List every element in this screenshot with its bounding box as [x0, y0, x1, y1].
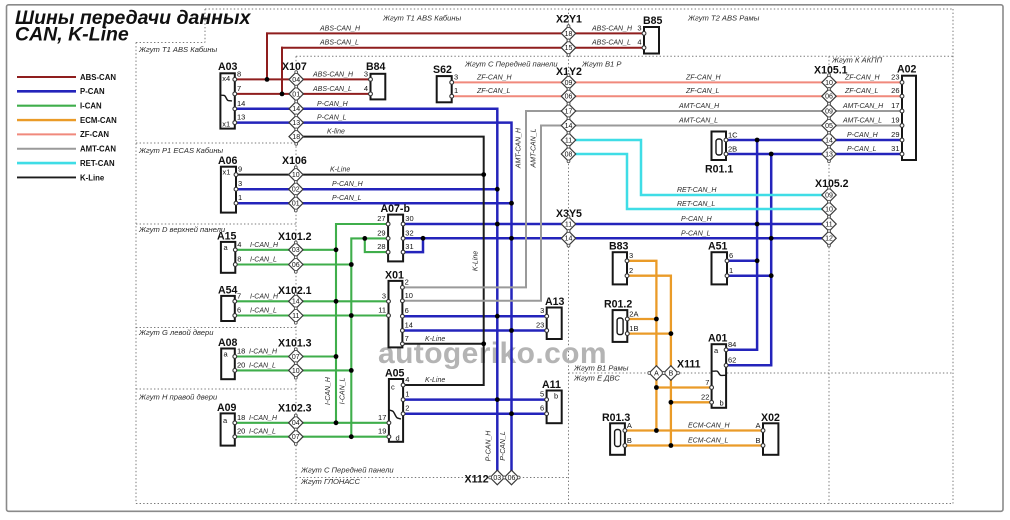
- svg-text:P-CAN_H: P-CAN_H: [847, 132, 879, 139]
- svg-text:P-CAN: P-CAN: [80, 87, 105, 96]
- wire P-CAN_L A06.1 row: [236, 202, 512, 205]
- wire K-Line X107.18 row: [296, 137, 484, 385]
- svg-text:X107: X107: [282, 61, 307, 73]
- junction P-CAN_H X106: [495, 187, 500, 192]
- junction I-CAN_H X101.2 row: [334, 247, 339, 252]
- junction K-Line X01: [481, 341, 486, 346]
- svg-text:AMT-CAN_H: AMT-CAN_H: [516, 127, 523, 169]
- svg-text:x4: x4: [222, 74, 230, 83]
- svg-text:I-CAN: I-CAN: [80, 102, 102, 111]
- svg-text:RET-CAN_H: RET-CAN_H: [677, 187, 717, 194]
- svg-text:3: 3: [629, 251, 633, 260]
- svg-text:S62: S62: [433, 64, 452, 76]
- svg-text:P-CAN_H: P-CAN_H: [332, 181, 364, 188]
- svg-text:05: 05: [825, 123, 833, 130]
- svg-text:84: 84: [728, 340, 736, 349]
- connector R01.2: [613, 310, 628, 342]
- connector B84: [371, 74, 386, 100]
- svg-text:09: 09: [565, 80, 573, 87]
- wire I-CAN_H vertical bus: [336, 224, 388, 423]
- dashed harness boundary top-left vertical: [204, 9, 206, 43]
- svg-text:29: 29: [377, 228, 385, 237]
- svg-text:I-CAN_L: I-CAN_L: [249, 429, 276, 436]
- junction P-CAN_L at A07-b bus: [509, 236, 514, 241]
- svg-text:5: 5: [540, 390, 544, 399]
- dashed boundary right-door top: [136, 388, 296, 390]
- connector A15: [221, 242, 235, 273]
- svg-text:3: 3: [238, 179, 242, 188]
- wire I-CAN_H A54.7 to X01.3: [235, 300, 389, 302]
- svg-text:10: 10: [292, 172, 300, 179]
- svg-text:01: 01: [292, 201, 300, 208]
- svg-text:14: 14: [292, 299, 300, 306]
- svg-text:20: 20: [237, 427, 245, 436]
- svg-text:K-Line: K-Line: [330, 167, 350, 174]
- svg-text:K-Line: K-Line: [425, 377, 445, 384]
- svg-text:autogeriko.com: autogeriko.com: [378, 337, 607, 370]
- svg-text:18: 18: [565, 31, 573, 38]
- svg-text:09: 09: [825, 108, 833, 115]
- wire P-CAN_L A05.2 to A11.6: [403, 412, 546, 415]
- junction I-CAN_L A07-b.29: [362, 236, 367, 241]
- svg-text:06: 06: [292, 262, 300, 269]
- svg-text:14: 14: [405, 321, 413, 330]
- wire P-CAN_L A51.1 stub: [727, 274, 771, 277]
- junction I-CAN_H X102.1 row: [334, 299, 339, 304]
- svg-text:Жгут Е ДВС: Жгут Е ДВС: [573, 374, 620, 383]
- svg-text:ECM-CAN_H: ECM-CAN_H: [688, 423, 731, 430]
- svg-text:X105.2: X105.2: [815, 178, 849, 190]
- svg-text:A05: A05: [385, 368, 405, 380]
- svg-text:X02: X02: [761, 412, 780, 424]
- svg-text:P-CAN_L: P-CAN_L: [681, 230, 711, 237]
- junction I-CAN_H X102.3 row: [334, 420, 339, 425]
- svg-text:23: 23: [536, 321, 544, 330]
- svg-text:Жгут В1 Р: Жгут В1 Р: [581, 60, 622, 69]
- dashed harness boundary upper-left horizontal: [136, 42, 205, 44]
- svg-text:K-line: K-line: [327, 129, 345, 136]
- svg-text:A: A: [627, 421, 632, 430]
- svg-text:d: d: [396, 434, 400, 443]
- svg-text:12: 12: [825, 236, 833, 243]
- svg-text:b: b: [720, 399, 724, 408]
- svg-text:I-CAN_L: I-CAN_L: [250, 308, 277, 315]
- svg-text:06: 06: [825, 94, 833, 101]
- junction ABS-CAN_H: [265, 77, 270, 82]
- wire ABS-CAN_H A03.8 to B84.3: [235, 78, 371, 80]
- svg-text:B: B: [669, 370, 674, 377]
- svg-text:ZF-CAN_L: ZF-CAN_L: [685, 88, 720, 95]
- svg-text:A03: A03: [218, 61, 238, 73]
- svg-text:RET-CAN_L: RET-CAN_L: [677, 201, 715, 208]
- wire I-CAN_H A15.4 row: [235, 249, 336, 251]
- wire ECM-CAN_H A01.7 stub: [656, 386, 711, 388]
- svg-text:AMT-CAN_L: AMT-CAN_L: [842, 118, 882, 125]
- connector X01: [389, 281, 403, 348]
- svg-text:X106: X106: [282, 155, 307, 167]
- svg-text:A11: A11: [542, 379, 561, 391]
- svg-text:1: 1: [238, 193, 242, 202]
- svg-text:A54: A54: [218, 285, 238, 297]
- wire P-CAN_H A03.14 row: [235, 109, 498, 478]
- junction ECM-CAN_H R01.3 row: [654, 428, 659, 433]
- svg-text:Жгут ГЛОНАСС: Жгут ГЛОНАСС: [300, 477, 361, 486]
- junction I-CAN_L X102.3 row: [349, 434, 354, 439]
- svg-text:19: 19: [891, 116, 899, 125]
- svg-text:08: 08: [565, 151, 573, 158]
- svg-text:b: b: [554, 391, 558, 400]
- junction P-CAN_L at R01.1 row: [769, 152, 774, 157]
- wire P-CAN_L right riser to A01.62: [726, 154, 771, 365]
- wire I-CAN_L A15.8 row: [235, 263, 351, 265]
- wire ZF-CAN_L S62.1 to A02.26: [452, 95, 902, 97]
- wire I-CAN_L A54.6 to X01.11: [235, 314, 389, 316]
- svg-text:A01: A01: [708, 333, 728, 345]
- wire ZF-CAN_H S62.3 to A02.23: [452, 81, 902, 83]
- wire P-CAN_H A07-b.30 bus to X105.2: [403, 223, 829, 226]
- svg-text:6: 6: [405, 306, 409, 315]
- svg-text:8: 8: [237, 255, 241, 264]
- connector A05: [389, 379, 403, 442]
- svg-text:17: 17: [378, 413, 386, 422]
- svg-text:I-CAN_H: I-CAN_H: [250, 293, 279, 300]
- wire ECM-CAN_H R01.2-2A stub: [627, 318, 656, 320]
- svg-text:2: 2: [629, 266, 633, 275]
- svg-text:R01.1: R01.1: [705, 164, 733, 176]
- junction I-CAN_L X101.2 row: [349, 262, 354, 267]
- svg-text:I-CAN_L: I-CAN_L: [250, 257, 277, 264]
- svg-text:3: 3: [382, 291, 386, 300]
- dashed boundary left-door top: [136, 327, 296, 329]
- svg-text:B84: B84: [366, 61, 386, 73]
- junction P-CAN_L at A51: [769, 273, 774, 278]
- svg-text:1B: 1B: [629, 324, 638, 333]
- svg-text:ABS-CAN: ABS-CAN: [80, 73, 116, 82]
- wire ECM-CAN_H B83.3 riser: [627, 261, 656, 431]
- svg-text:X01: X01: [385, 270, 404, 282]
- junction ECM-CAN_H A01.7: [654, 385, 659, 390]
- junction I-CAN_L X102.1 row: [349, 313, 354, 318]
- svg-text:14: 14: [825, 137, 833, 144]
- wire RET-CAN_H X1Y2.11 to X105.2-09: [569, 140, 830, 195]
- svg-text:ECM-CAN: ECM-CAN: [80, 116, 117, 125]
- svg-text:RET-CAN: RET-CAN: [80, 159, 115, 168]
- svg-text:P-CAN_H: P-CAN_H: [317, 101, 349, 108]
- dashed boundary ECAS bottom: [136, 223, 296, 225]
- svg-text:11: 11: [565, 221, 572, 228]
- connector A07-b: [388, 215, 403, 262]
- svg-text:03: 03: [493, 475, 501, 482]
- svg-text:X112: X112: [465, 474, 489, 486]
- svg-text:K-Line: K-Line: [473, 251, 480, 271]
- wire I-CAN_L A08.20 row: [235, 369, 351, 371]
- svg-text:CAN, K-Line: CAN, K-Line: [15, 24, 129, 46]
- connector R01.1: [712, 132, 727, 161]
- svg-text:9: 9: [238, 165, 242, 174]
- svg-text:ABS-CAN_L: ABS-CAN_L: [319, 40, 359, 47]
- svg-text:x1: x1: [222, 120, 230, 129]
- svg-text:14: 14: [565, 236, 573, 243]
- svg-text:18: 18: [237, 347, 245, 356]
- wire I-CAN_L A07-b.28 stub: [365, 238, 388, 252]
- svg-text:Жгут H правой двери: Жгут H правой двери: [138, 393, 218, 402]
- svg-text:I-CAN_H: I-CAN_H: [249, 349, 278, 356]
- svg-text:ZF-CAN_L: ZF-CAN_L: [844, 88, 879, 95]
- svg-text:B: B: [755, 436, 760, 445]
- svg-text:I-CAN_L: I-CAN_L: [249, 362, 276, 369]
- wire ABS-CAN_H riser: [266, 33, 268, 79]
- junction ECM-CAN_H R01.2: [654, 317, 659, 322]
- connector S62: [437, 76, 452, 102]
- connector A13: [547, 308, 562, 340]
- wire ECM-CAN_H R01.3-A to X02-A: [625, 429, 763, 431]
- svg-text:29: 29: [891, 130, 899, 139]
- svg-text:1: 1: [454, 86, 458, 95]
- svg-text:A15: A15: [217, 231, 237, 243]
- wire I-CAN_L A09.20 to A05.19: [235, 436, 389, 438]
- svg-text:30: 30: [405, 214, 413, 223]
- svg-text:ABS-CAN_H: ABS-CAN_H: [591, 26, 633, 33]
- svg-text:ZF-CAN_L: ZF-CAN_L: [476, 88, 511, 95]
- connector B85: [644, 27, 659, 54]
- wire P-CAN_H X01.6 to A13.3: [402, 315, 546, 318]
- dashed boundary y56: [296, 55, 953, 57]
- connector A01: [712, 344, 727, 408]
- svg-text:B83: B83: [609, 241, 629, 253]
- connector A03: [220, 73, 234, 128]
- wire P-CAN_L A07-b.31 stub: [403, 238, 423, 252]
- wire P-CAN_L R01.1-2B to A02.31: [726, 153, 902, 156]
- svg-text:15: 15: [565, 45, 573, 52]
- dashed connector column X2Y1/X1Y2/X3Y5: [568, 9, 570, 504]
- wire ECM-CAN_L R01.3-B to X02-B: [625, 444, 763, 446]
- svg-text:I-CAN_H: I-CAN_H: [250, 242, 279, 249]
- wire K-Line X01.7 row: [402, 343, 483, 345]
- svg-text:11: 11: [565, 137, 572, 144]
- svg-text:P-CAN_H: P-CAN_H: [681, 216, 713, 223]
- svg-text:A13: A13: [545, 296, 565, 308]
- junction P-CAN_L at X105.2 row: [769, 236, 774, 241]
- junction ECM-CAN_L A01.22: [669, 400, 674, 405]
- svg-text:14: 14: [565, 123, 573, 130]
- junction ECM-CAN_L R01.2: [669, 331, 674, 336]
- svg-text:ZF-CAN_H: ZF-CAN_H: [685, 74, 722, 81]
- svg-text:3: 3: [364, 70, 368, 79]
- svg-text:A: A: [755, 421, 760, 430]
- dashed connector column X107/X106/X101/X102: [295, 56, 297, 503]
- svg-text:11: 11: [292, 313, 299, 320]
- svg-text:6: 6: [540, 404, 544, 413]
- wire P-CAN_L X01.14 to A13.23: [402, 329, 546, 332]
- junction K-Line X106: [481, 172, 486, 177]
- junction P-CAN_L X106: [509, 201, 514, 206]
- svg-text:Жгут Т2 ABS Рамы: Жгут Т2 ABS Рамы: [687, 14, 760, 23]
- svg-text:ABS-CAN_L: ABS-CAN_L: [591, 40, 631, 47]
- svg-text:X105.1: X105.1: [814, 65, 848, 77]
- svg-text:11: 11: [378, 306, 386, 315]
- svg-text:07: 07: [292, 434, 300, 441]
- junction P-CAN_H X01: [495, 314, 500, 319]
- svg-text:01: 01: [292, 91, 300, 98]
- dashed harness boundary bottom: [136, 503, 953, 505]
- svg-text:2: 2: [405, 277, 409, 286]
- dashed harness boundary top: [205, 8, 953, 10]
- connector R01.3: [610, 423, 625, 455]
- svg-text:04: 04: [292, 77, 300, 84]
- svg-text:6: 6: [729, 251, 733, 260]
- svg-text:I-CAN_H: I-CAN_H: [249, 415, 278, 422]
- svg-text:4: 4: [364, 84, 368, 93]
- svg-text:3: 3: [454, 72, 458, 81]
- wire ABS-CAN_H top bus: [267, 32, 644, 34]
- wire P-CAN_H right riser to A01.84: [726, 140, 757, 350]
- svg-text:ABS-CAN_L: ABS-CAN_L: [312, 86, 352, 93]
- svg-text:Жгут D верхней панели: Жгут D верхней панели: [138, 225, 226, 234]
- svg-text:19: 19: [378, 427, 386, 436]
- svg-text:7: 7: [405, 334, 409, 343]
- legend of wire colors: [17, 76, 76, 78]
- svg-text:03: 03: [292, 247, 300, 254]
- svg-text:X111: X111: [677, 359, 701, 371]
- dashed harness boundary left vertical: [135, 43, 137, 504]
- junction P-CAN_H A05: [495, 397, 500, 402]
- wire ECM-CAN_L R01.2-1B stub: [627, 332, 671, 334]
- svg-text:14: 14: [292, 106, 300, 113]
- wire AMT-CAN_L X01.10 to A02.19: [402, 126, 902, 301]
- connector A11: [547, 391, 562, 424]
- wire ECM-CAN_L A01.22 stub: [671, 401, 712, 403]
- svg-text:62: 62: [728, 356, 736, 365]
- wire P-CAN_H R01.1-1C to A02.29: [726, 139, 902, 142]
- svg-text:A02: A02: [897, 64, 917, 76]
- svg-text:06: 06: [565, 94, 573, 101]
- junction P-CAN_H at A07-b bus: [495, 222, 500, 227]
- svg-text:31: 31: [405, 242, 413, 251]
- svg-text:4: 4: [637, 38, 641, 47]
- connector A09: [221, 413, 235, 445]
- svg-text:1: 1: [729, 266, 733, 275]
- svg-text:17: 17: [565, 108, 573, 115]
- connector A51: [712, 252, 728, 284]
- svg-text:AMT-CAN_H: AMT-CAN_H: [678, 103, 720, 110]
- svg-text:Жгут G левой двери: Жгут G левой двери: [138, 328, 214, 337]
- junction ABS-CAN_L: [280, 92, 285, 97]
- svg-text:Жгут К АКПП: Жгут К АКПП: [831, 56, 883, 65]
- svg-text:X102.3: X102.3: [278, 403, 312, 415]
- svg-text:17: 17: [891, 101, 899, 110]
- svg-text:B85: B85: [643, 15, 663, 27]
- connector A06: [221, 167, 236, 213]
- dashed harness boundary right vertical: [952, 9, 954, 504]
- junction P-CAN_H at A51: [755, 258, 760, 263]
- connector X02: [763, 423, 778, 455]
- wire I-CAN_H A08.18 row: [235, 355, 336, 357]
- svg-text:X2Y1: X2Y1: [556, 14, 582, 26]
- svg-text:28: 28: [377, 242, 385, 251]
- svg-text:P-CAN_H: P-CAN_H: [486, 430, 493, 462]
- svg-text:A: A: [654, 370, 659, 377]
- junction ECM-CAN_L R01.3 row: [669, 443, 674, 448]
- svg-text:ZF-CAN_H: ZF-CAN_H: [844, 74, 881, 81]
- wire P-CAN_L A07-b.32 bus to X105.2: [403, 237, 829, 240]
- svg-text:04: 04: [292, 420, 300, 427]
- svg-text:8: 8: [237, 70, 241, 79]
- svg-text:K-Line: K-Line: [425, 336, 445, 343]
- svg-text:1C: 1C: [728, 130, 738, 139]
- svg-text:2: 2: [405, 404, 409, 413]
- svg-text:I-CAN_L: I-CAN_L: [340, 377, 347, 404]
- connector A54: [221, 296, 235, 321]
- wire I-CAN_H A09.18 to A05.17: [235, 422, 389, 424]
- svg-text:3: 3: [637, 23, 641, 32]
- svg-text:32: 32: [405, 228, 413, 237]
- svg-text:K-Line: K-Line: [80, 173, 105, 182]
- svg-text:6: 6: [237, 306, 241, 315]
- svg-text:P-CAN_L: P-CAN_L: [332, 195, 362, 202]
- dashed boundary GLONASS: [296, 477, 569, 479]
- junction P-CAN_L X01: [509, 328, 514, 333]
- svg-text:13: 13: [825, 151, 833, 158]
- svg-text:27: 27: [377, 214, 385, 223]
- junction P-CAN_L A05: [509, 411, 514, 416]
- wire AMT-CAN_H X01.2 to A02.17: [402, 111, 902, 287]
- svg-text:09: 09: [825, 192, 833, 199]
- svg-text:ABS-CAN_H: ABS-CAN_H: [312, 71, 354, 78]
- svg-text:Жгут Т1 ABS Кабины: Жгут Т1 ABS Кабины: [138, 45, 218, 54]
- connector B83: [613, 252, 627, 284]
- svg-text:4: 4: [237, 240, 241, 249]
- svg-text:c: c: [391, 383, 395, 392]
- svg-text:7: 7: [237, 84, 241, 93]
- svg-text:P-CAN_L: P-CAN_L: [317, 115, 347, 122]
- svg-text:B: B: [627, 436, 632, 445]
- svg-text:I-CAN_H: I-CAN_H: [325, 376, 332, 405]
- wire P-CAN_L A03.13 row: [235, 123, 512, 478]
- wire ABS-CAN_L riser: [281, 48, 283, 94]
- svg-text:A08: A08: [218, 337, 238, 349]
- svg-text:AMT-CAN_L: AMT-CAN_L: [678, 118, 718, 125]
- wire P-CAN_H A05.1 to A11.5: [403, 398, 546, 401]
- dashed boundary T1-ABS bottom: [136, 142, 296, 144]
- svg-text:7: 7: [237, 291, 241, 300]
- svg-text:R01.2: R01.2: [604, 299, 632, 311]
- svg-text:26: 26: [891, 86, 899, 95]
- svg-text:06: 06: [508, 475, 516, 482]
- svg-text:AMT-CAN_L: AMT-CAN_L: [531, 128, 538, 168]
- svg-text:A06: A06: [218, 155, 238, 167]
- svg-text:Жгут С Передней панели: Жгут С Передней панели: [464, 60, 558, 69]
- dashed boundary V1-frame/engine: [569, 372, 954, 374]
- wire ABS-CAN_L A03.7 to B84.4: [235, 93, 371, 95]
- wire K-Line A06.9 row: [236, 174, 484, 176]
- connector A08: [221, 349, 235, 380]
- svg-text:10: 10: [292, 368, 300, 375]
- svg-text:P-CAN_L: P-CAN_L: [847, 146, 877, 153]
- wire ABS-CAN_L top bus: [282, 47, 644, 49]
- connector A02: [902, 76, 916, 160]
- junction P-CAN_H at X105.2 row: [755, 222, 760, 227]
- svg-text:AMT-CAN_H: AMT-CAN_H: [842, 103, 884, 110]
- svg-text:7: 7: [705, 378, 709, 387]
- svg-text:A09: A09: [217, 402, 237, 414]
- svg-text:ECM-CAN_L: ECM-CAN_L: [688, 438, 729, 445]
- svg-text:x1: x1: [223, 168, 231, 177]
- svg-text:14: 14: [237, 99, 245, 108]
- junction I-CAN_L X101.3 row: [349, 368, 354, 373]
- svg-text:3: 3: [540, 306, 544, 315]
- svg-text:11: 11: [825, 221, 832, 228]
- svg-text:31: 31: [891, 144, 899, 153]
